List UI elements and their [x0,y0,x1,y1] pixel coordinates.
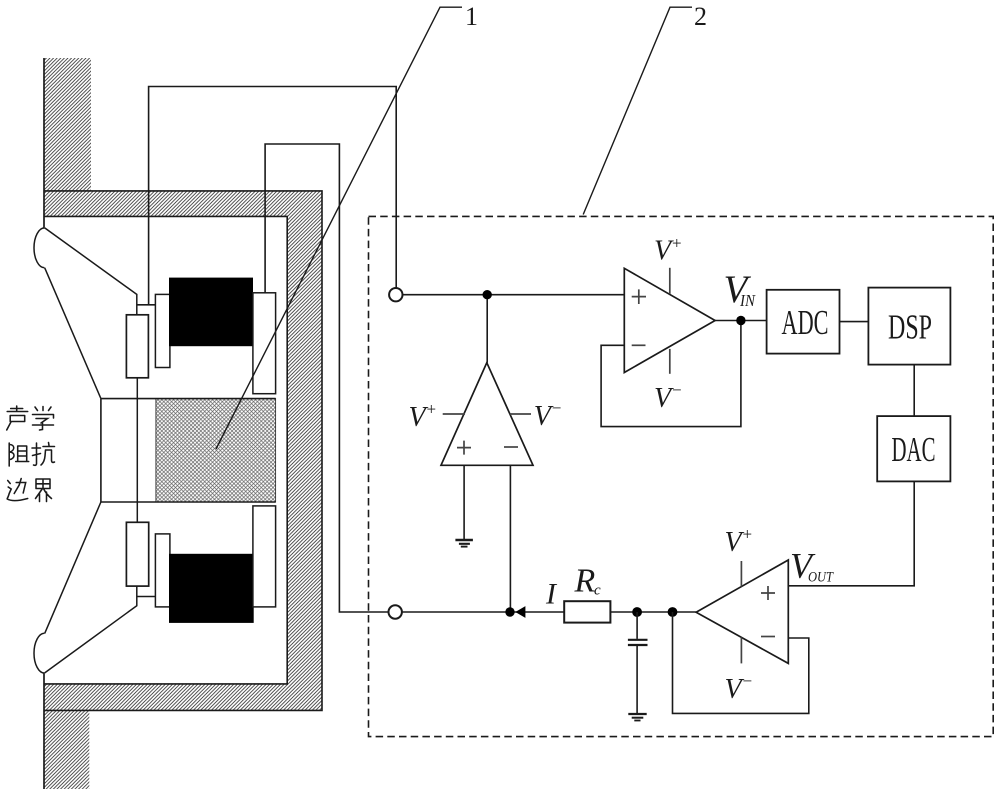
U2 plus input ground stub [463,465,465,539]
wire ADC to DSP [840,321,869,323]
speaker frame top line [45,228,137,315]
speaker cone bottom line [45,502,101,633]
U1 plus input mark [632,289,646,304]
speaker bottom surround [34,633,45,673]
U1 V- power stub [669,349,671,374]
U1 minus input mark [632,344,646,346]
svg-text:V: V [654,236,674,267]
char bian [7,479,28,501]
wall lower hatched bar [44,710,89,789]
input terminal bottom (open circle) [389,605,402,618]
DAC block [877,416,950,481]
wire node A drop to op-amp U2 [486,295,488,363]
node VIN junction dot [736,316,745,325]
U1 V+ power stub [669,268,671,294]
char xue [33,407,54,431]
svg-text:−: − [552,399,562,418]
capacitor junction dot [632,607,642,617]
svg-text:+: + [672,234,682,253]
enclosure inner border [44,216,287,684]
wire speaker terminal B up over and down [265,144,389,612]
op-amp U2 (current sense, pointing up) [441,363,533,466]
char kang [32,443,55,466]
callout line 2 [583,7,692,214]
ground under capacitor [628,713,646,715]
speaker top surround [34,228,45,268]
resistor Rc [564,601,610,622]
svg-text:V: V [409,402,429,433]
svg-text:1: 1 [465,2,478,31]
feedback junction dot [668,607,678,617]
svg-text:OUT: OUT [808,570,834,586]
svg-text:V: V [654,383,674,414]
enclosure outer border [44,191,322,711]
svg-text:+: + [427,400,437,419]
U3 minus input mark [761,636,775,638]
capacitor bottom lead [636,646,638,714]
svg-text:+: + [743,525,753,544]
svg-text:IN: IN [739,291,756,310]
DSP block [868,288,950,365]
svg-text:V: V [725,674,745,705]
dashed controller box 2 [369,216,994,736]
svg-text:R: R [574,562,596,599]
top magnet [169,278,253,347]
callout line 1 [216,7,462,449]
wire speaker terminal A up and over [149,87,397,305]
wire top input to op-amp U1 [402,294,624,296]
former top tie bar [137,304,156,306]
wall left edge line lower [43,673,45,789]
U3 feedback wire [673,612,809,713]
voice coil bottom [126,522,148,586]
wire DAC down to op-amp U3 input [788,481,914,585]
svg-text:V: V [725,527,745,558]
wall left edge line upper [43,58,45,228]
U3 V+ power stub [740,561,742,587]
voice coil top [126,315,148,378]
svg-text:DAC: DAC [892,430,936,469]
former bottom tie bar [137,596,156,598]
svg-text:−: − [672,381,682,400]
bottom pole plate left [155,534,170,607]
U1 output wire to ADC [715,320,767,322]
speaker frame bottom line [45,586,137,673]
svg-text:c: c [594,583,601,599]
char zu [9,443,29,466]
U2 plus input mark [457,441,471,455]
bottom magnet [169,554,254,623]
char jie [36,479,52,502]
bottom wire from terminal to resistor [402,611,565,613]
U1 feedback wire [601,321,741,427]
op-amp U1 (input buffer) [624,268,715,372]
wire DSP to DAC [913,365,915,417]
current arrow I [515,606,525,618]
chinese label: acoustic impedance boundary [7,406,55,502]
U2 minus input wire down to node I [509,465,511,612]
capacitor top lead [636,612,638,639]
pole piece crosshatched block [156,399,276,502]
pole front plate lines [101,399,276,502]
U2 V+ power bar [443,413,465,415]
U3 plus input mark [761,586,775,600]
bottom back plate right [253,506,276,607]
voice coil former center vertical [136,378,138,523]
svg-text:−: − [743,672,753,691]
svg-text:ADC: ADC [782,303,829,342]
svg-text:V: V [534,401,554,432]
wall upper hatched bar [44,58,91,191]
node A junction dot [483,290,492,299]
speaker cone top line [45,268,101,399]
top back plate right [253,293,276,394]
U2 minus input mark [504,446,518,448]
capacitor C plates [628,640,648,645]
top pole plate left [155,294,170,367]
ground under U2 [455,539,473,541]
char sheng [7,406,28,430]
U2 V- power bar [510,413,531,415]
svg-text:DSP: DSP [888,308,932,347]
U3 V- power stub [740,637,742,663]
wire resistor to op-amp U3 [610,611,696,613]
op-amp U3 (output driver, pointing left) [696,560,788,663]
input terminal top (open circle) [389,288,402,301]
svg-text:2: 2 [694,2,707,31]
enclosure L-shaped hatched wall [44,191,322,711]
ADC block [767,290,840,354]
node I junction dot [505,607,514,616]
